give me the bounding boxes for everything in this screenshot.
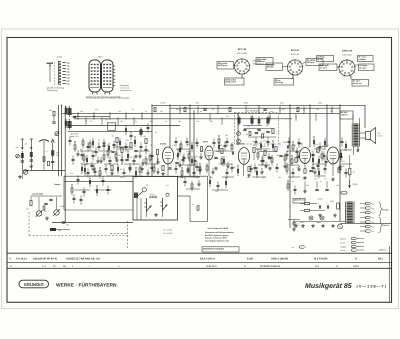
svg-text:1n: 1n [132,108,134,111]
svg-text:10k: 10k [326,144,329,147]
volume pot [36,210,43,217]
svg-text:B250: B250 [318,198,322,201]
IF box coil 4 [258,117,261,126]
V1 label [160,143,167,146]
IF cap C12 [134,150,137,151]
svg-text:ZF 460: ZF 460 [267,66,274,69]
V3 grid cap [232,151,233,154]
IF box cap 1 [243,129,246,130]
IF box wire a [243,125,262,127]
wire FM unit left [58,105,60,176]
terminal wires [360,204,366,232]
antenna wire drop 2 [30,157,32,171]
svg-text:Geräuschspannung und Schaltung: Geräuschspannung und Schaltung n. Werksa… [86,97,129,100]
switch out drop [189,196,191,222]
svg-text:0,1: 0,1 [68,106,70,109]
socket U3 right wire [355,64,358,66]
IF box trimmer 1 [237,132,241,136]
rect cap C71 [319,205,320,208]
antenna cap C2 [30,160,33,161]
wire v x327 [326,105,328,147]
svg-text:b: b [54,79,56,82]
svg-text:EABC80: EABC80 [236,143,245,146]
svg-text:200: 200 [150,120,153,123]
connector caption [47,87,64,93]
V2 drop wire [207,176,209,221]
test jack J1 [55,132,59,136]
wire v x310 [309,105,311,147]
AVC bus [74,118,292,120]
svg-text:bl: bl [373,217,375,220]
socket U2 right label box [306,59,323,66]
rect gnd 1 [318,214,322,218]
svg-text:1: 1 [72,265,74,268]
V4 cathode cap [309,170,312,171]
speaker text [377,132,383,138]
anode supply bus [152,104,365,106]
mains arrow [348,181,351,189]
tube socket U1 (ECC85) [234,48,251,75]
IF gnd 1 [115,159,119,163]
IF coil L11 [139,127,142,137]
svg-text:b: b [54,61,56,64]
svg-text:N A: N A [315,265,319,268]
antenna wire drop 3 [43,156,45,171]
heater text [0,0,1,1]
IF resistor R15 [111,166,113,171]
svg-text:b: b [54,82,56,85]
screen resistor R41 [317,148,319,153]
IF box coil 3 [266,116,269,126]
V1 cathode cap [168,168,171,169]
feedback resistor R51 [349,168,351,175]
V5 cathode resistor [338,168,340,173]
svg-text:Geändert erscheint: Geändert erscheint [203,247,224,250]
svg-text:300: 300 [187,143,190,146]
svg-text:ZF 10700/468: ZF 10700/468 [247,110,259,113]
svg-text:+: + [326,202,328,205]
V2 anode resistor [200,147,202,152]
svg-text:8n: 8n [200,110,202,113]
antenna coil L3 [43,157,45,162]
parts row 2 [10,265,360,268]
bottom link resistor [197,206,199,211]
antenna coil L2 [30,150,33,159]
svg-text:MAB/MB GMB/LB: MAB/MB GMB/LB [260,265,280,268]
svg-text:gn: gn [373,204,375,206]
mains text [353,183,360,186]
svg-text:1M: 1M [26,208,29,211]
svg-text:AB/455 35 7AB 8AB AB: AB/455 35 7AB 8AB AB [66,258,95,261]
IF transformer box [235,113,279,145]
svg-text:50k: 50k [278,143,281,146]
V4 text [296,165,344,169]
wire v x259 [258,105,260,113]
tube pinout side pins [113,66,116,86]
svg-text:100: 100 [56,154,59,157]
svg-text:160: 160 [49,109,52,112]
wire v x152 [151,105,153,176]
output transformer secondary line [359,124,361,147]
IF resistor R11 [116,138,118,143]
svg-text:GRUNDIG: GRUNDIG [24,282,44,287]
svg-text:NF grau: NF grau [359,67,367,70]
IF box wire b [248,136,276,138]
socket U2 bottom label box [274,79,294,86]
connector arrow [47,63,54,82]
IF box text [246,132,266,143]
IF box coil 2 [250,116,253,126]
svg-text:6,3V 0,3A: 6,3V 0,3A [291,53,300,56]
border frame [7,38,392,303]
tube pinout caption [86,96,120,99]
FM feed resistor [49,109,55,121]
svg-text:12k: 12k [252,144,255,147]
det wire [259,151,276,153]
left ground bus [23,170,65,172]
svg-text:1n5: 1n5 [247,125,250,128]
svg-text:(V—138—7): (V—138—7) [357,284,387,288]
IF resistor R13 [130,143,132,148]
bus resistor R83 [297,107,299,112]
socket U1 left wire [234,65,235,67]
svg-text:47k: 47k [196,120,199,123]
lamp 2 [320,216,324,220]
svg-text:+250V: +250V [243,102,249,105]
svg-text:0,5: 0,5 [230,144,232,147]
svg-text:20: 20 [294,144,296,147]
left node text [16,143,28,150]
parts band bottom line [7,267,392,269]
svg-text:50: 50 [130,156,132,159]
svg-text:2M: 2M [118,154,121,157]
det cap C31 [268,157,271,158]
antenna resistor R1 [48,161,50,166]
pot gnd [45,217,49,221]
svg-text:47k: 47k [342,160,345,163]
svg-text:Spieler: Spieler [383,224,390,227]
svg-text:b: b [54,76,56,79]
bottom link text [192,203,194,206]
antenna input 2 [30,139,33,150]
ps heater text [300,221,321,224]
svg-text:1,2k: 1,2k [250,115,253,118]
svg-text:12k: 12k [246,176,249,179]
svg-text:ECH 81: ECH 81 [291,49,300,52]
svg-text:47k: 47k [95,108,98,111]
svg-text:K: K [336,265,338,268]
parts band mid line [7,261,392,263]
power transformer right line [353,202,355,224]
svg-text:12a: 12a [67,61,71,64]
dipole arrow [51,140,54,151]
svg-text:280,280 6P 6P 4P-N: 280,280 6P 6P 4P-N [33,258,57,261]
svg-text:0,1: 0,1 [196,155,199,158]
svg-text:b: b [54,67,56,70]
AM signal bus [68,125,180,127]
svg-text:UKW braun: UKW braun [225,81,237,84]
left gnd 2 [30,165,34,169]
svg-text:220: 220 [118,110,121,113]
misc small components [69,105,348,204]
svg-text:12a: 12a [67,67,71,70]
det gnd [268,167,272,171]
FM feed cap [52,122,55,123]
svg-text:Masse sw: Masse sw [353,82,362,85]
svg-text:82: 82 [246,133,248,136]
title text [305,282,387,290]
svg-text:6,8k: 6,8k [262,145,265,148]
svg-text:30: 30 [252,140,254,143]
socket U3 right label box 2 [359,64,375,71]
svg-text:Ant br: Ant br [340,242,345,245]
svg-text:1n: 1n [68,118,70,121]
svg-text:Tonabn.: Tonabn. [54,183,61,186]
svg-text:6,3V: 6,3V [280,102,284,105]
svg-text:5k: 5k [112,172,114,175]
V2 gnd [214,167,218,171]
IF box resistor 3 [262,134,264,138]
IF cap C11 [111,151,114,152]
svg-text:12a: 12a [67,82,71,85]
svg-text:1M: 1M [225,134,228,137]
svg-text:1n: 1n [100,172,102,175]
power transformer T2 [347,202,353,224]
V3 cathode resistor [248,167,250,172]
svg-text:1,2k: 1,2k [315,143,318,146]
IF text 2 [107,144,132,159]
V3 anode resistor [253,148,255,153]
left wire drop 5 [21,164,23,179]
socket U1 left label box [217,62,234,70]
svg-text:47074: 47074 [150,193,155,196]
pot wires [31,196,62,211]
svg-text:50n: 50n [196,144,199,147]
svg-text:25: 25 [150,144,152,147]
svg-text:Skala: Skala [316,221,321,224]
wire v x238 [237,114,239,145]
fuse [341,192,347,195]
svg-text:A.: A. [10,265,13,268]
pot cap C61 [44,203,47,204]
socket U3 left label box 2 [319,64,337,71]
dashed wire vertical [28,212,30,236]
rect wire b [300,210,325,212]
svg-text:7025-11: 7025-11 [341,114,348,117]
dashed wire horizontal [29,235,130,237]
tube pinout right note [120,84,131,92]
svg-text:220V~: 220V~ [353,183,360,186]
svg-text:3,2: 3,2 [353,171,356,174]
svg-text:M 5 TM MG: M 5 TM MG [314,258,328,261]
svg-text:\: \ [89,265,90,268]
antenna cap C3 [51,161,54,162]
svg-text:5k: 5k [145,110,147,113]
switch circle right [166,193,169,196]
svg-text:2F-1 47076: 2F-1 47076 [163,229,172,232]
bus dot 2 [61,105,341,115]
heater drop 1 [303,181,307,193]
svg-text:ZF schw: ZF schw [320,67,328,70]
svg-text:5n: 5n [302,178,304,181]
svg-text:Musikgerät 85: Musikgerät 85 [305,282,352,290]
bus dot 1 [169,105,327,115]
svg-text:AS: AS [96,258,100,261]
svg-text:8n: 8n [128,154,130,157]
FM label [70,133,78,139]
revision box [202,247,239,252]
svg-text:EABC 80: EABC 80 [342,50,353,53]
svg-text:Pfeilrichtung: Pfeilrichtung [47,89,57,92]
svg-text:WERKE · FÜRTH/BAYERN: WERKE · FÜRTH/BAYERN [56,281,117,288]
tube V5 [327,147,339,164]
svg-text:1n: 1n [80,162,82,165]
svg-text:12a: 12a [67,64,71,67]
switch S1 [144,198,152,212]
svg-text:0,5: 0,5 [226,176,228,179]
svg-text:C: C [10,258,12,261]
svg-text:10k: 10k [178,120,181,123]
wire v x340 [339,105,341,221]
lamp 1 [309,216,313,220]
svg-text:200: 200 [298,154,301,157]
tube socket U2 (ECH81) [287,49,304,76]
FM wire 2 [68,130,152,132]
connector pin rows [54,61,70,85]
IF box cap 2 [257,129,260,130]
svg-text:25: 25 [212,108,214,111]
svg-text:12a: 12a [67,73,71,76]
IF box resistor 2 [249,131,251,135]
mesh wires horizontal [74,149,352,190]
V2 label [203,141,209,144]
wire v x194 [193,110,195,176]
pot resistor R63 [43,206,45,210]
svg-text:2F-1 47078: 2F-1 47078 [163,232,172,235]
svg-text:47k: 47k [70,172,73,175]
switch actuator blob [134,193,138,199]
V1 screen cap [175,162,178,163]
wire FM unit right [61,105,63,176]
IF box cap 3 [255,132,258,133]
svg-text:1,4: 1,4 [42,265,46,268]
tone cap C63 [62,222,65,223]
svg-text:A: A [355,258,357,261]
selenium rectifier [337,203,340,209]
svg-text:98 c: 98 c [378,258,384,261]
svg-text:rt Regler: rt Regler [358,58,366,61]
antenna coil L1 [21,151,24,160]
right cap C81 wire [288,220,300,232]
svg-text:oben: oben [98,56,102,59]
svg-text:6k8: 6k8 [210,176,213,179]
svg-text:15k: 15k [278,176,281,179]
svg-text:5k: 5k [95,162,97,165]
svg-text:Erde ws: Erde ws [340,238,347,241]
svg-text:220: 220 [210,120,213,123]
det resistor R32 [275,147,277,152]
V3 gnd [247,174,251,178]
svg-text:12a: 12a [67,76,71,79]
FM tuning coil 1b [65,106,67,115]
right small box [293,199,305,204]
svg-text:15k: 15k [276,154,279,157]
socket U2 bottom wire [292,75,294,79]
svg-text:TB rot: TB rot [340,249,345,252]
svg-text:UKW grau: UKW grau [218,64,228,67]
svg-text:UKW rot: UKW rot [257,60,265,63]
IF box trimmer 2 [237,139,241,143]
svg-text:10n: 10n [324,178,327,181]
svg-text:0,1: 0,1 [112,135,115,138]
mid note lines [205,227,234,243]
lower connector rows [340,237,364,252]
svg-text:220: 220 [84,172,87,175]
socket U1 right label [253,60,265,66]
svg-text:+: + [318,202,320,205]
svg-text:25: 25 [155,131,157,134]
svg-text:6k8: 6k8 [216,150,219,153]
feedback text [353,171,356,174]
svg-text:bei 220V gemessen gegen: bei 220V gemessen gegen [205,234,229,237]
V1 gnd [161,172,165,176]
svg-text:UKW 5%: UKW 5% [294,199,302,202]
power ground row [294,224,335,228]
IF box coil 1 [237,116,240,126]
power fuse lamp [338,224,343,229]
lower connector extra [292,246,306,249]
GRUNDIG logo [19,280,49,288]
svg-text:85V: 85V [196,102,200,105]
det resistor R31 [264,151,266,156]
IF cap C13 [125,159,128,160]
switch knob circle [138,188,147,196]
svg-text:0,1: 0,1 [120,168,123,171]
wire v x190 [189,105,191,176]
svg-text:50n: 50n [270,110,273,113]
svg-text:* bei Geräten ab 1.08.56: * bei Geräten ab 1.08.56 [207,227,228,230]
top text row [160,102,323,105]
heater drop text [302,178,327,181]
svg-text:100: 100 [160,110,163,113]
svg-text:69.: 69. [63,265,67,268]
antenna coil L4 [51,148,54,158]
svg-text:50n: 50n [196,176,199,179]
heater drop 2 [315,181,318,191]
switch text [150,193,155,196]
svg-text:L1: L1 [46,150,48,153]
svg-text:25: 25 [146,184,148,187]
rect text [302,198,333,204]
V4 label [298,143,304,146]
socket U3 left wire [337,66,339,68]
rect resistor R71 [305,202,310,204]
chassis left edge [63,176,65,210]
svg-text:170: 170 [172,144,175,147]
IF box cap 4 [266,131,269,132]
wire v x218 [217,105,219,113]
IF resistor R14 [145,139,147,144]
IF wire c [121,153,123,165]
rect cap C72 [327,205,328,208]
switch out wire [178,195,191,197]
svg-text:5k: 5k [90,120,92,123]
svg-text:10k: 10k [80,110,83,113]
V2 cap [214,157,217,158]
rect gnd 2 [333,214,337,218]
svg-text:ANB 4 188 8B: ANB 4 188 8B [271,258,288,261]
svg-text:100: 100 [108,162,111,165]
